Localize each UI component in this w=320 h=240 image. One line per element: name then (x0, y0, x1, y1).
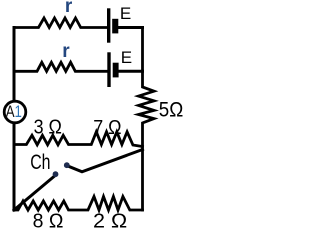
svg-text:E: E (120, 4, 131, 23)
wire left vertical (bottom segment) (13, 123, 16, 211)
wire row3 + resistor 3ohm + resistor 7ohm zigzags (14, 132, 143, 147)
wire battery E2 to right (119, 70, 143, 73)
svg-text:E: E (121, 48, 132, 67)
switch Ch blade right polyline (69, 150, 143, 172)
switch Ch blade left diagonal (14, 177, 54, 211)
svg-text:8 Ω: 8 Ω (33, 210, 64, 230)
battery E2 long plate (107, 54, 110, 85)
battery E2 short thick plate (113, 63, 119, 78)
wire right vertical + resistor 5ohm zigzag (139, 28, 155, 211)
svg-text:Ch: Ch (30, 150, 50, 174)
svg-text:5Ω: 5Ω (159, 98, 184, 121)
wire branch2 + resistor r2 zigzag (14, 62, 107, 71)
svg-text:r: r (65, 0, 73, 17)
switch contact dot right (64, 162, 70, 168)
battery E1 short thick plate (112, 19, 118, 34)
ammeter A1 circle (4, 101, 26, 123)
svg-text:7 Ω: 7 Ω (93, 117, 121, 139)
svg-text:A1: A1 (6, 103, 22, 121)
switch contact dot left (53, 171, 59, 177)
wire battery E1 to right (118, 26, 142, 29)
wire top branch + resistor r1 zigzag (14, 18, 107, 28)
svg-text:3 Ω: 3 Ω (34, 117, 62, 139)
svg-text:2 Ω: 2 Ω (93, 211, 127, 230)
wire left vertical (top segment) (13, 28, 16, 102)
svg-text:r: r (62, 41, 70, 62)
wire bottom + resistor 8ohm + resistor 2ohm zigzags (14, 197, 143, 211)
battery E1 long plate (107, 10, 110, 41)
